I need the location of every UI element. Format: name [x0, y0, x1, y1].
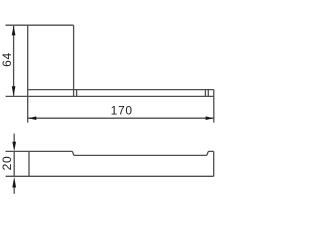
svg-text:20: 20: [0, 156, 14, 171]
svg-text:64: 64: [0, 52, 14, 67]
svg-text:170: 170: [111, 103, 133, 117]
